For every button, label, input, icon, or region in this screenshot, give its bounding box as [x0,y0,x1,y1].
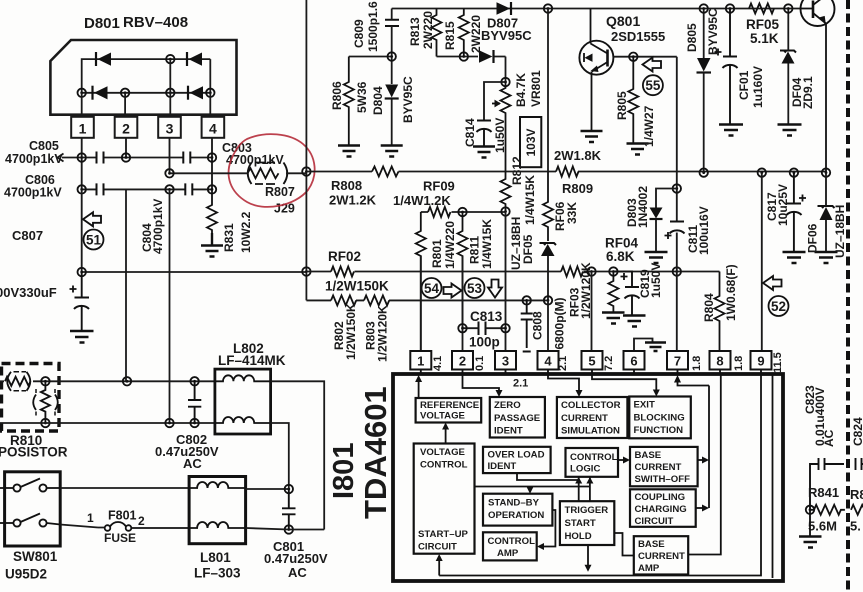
zener DF06 [818,206,835,220]
svg-text:4700p1kV: 4700p1kV [226,153,284,167]
junction DF04 top [784,4,792,12]
IC pin box 3 [495,351,516,370]
svg-text:RBV–408: RBV–408 [123,14,188,31]
ground DF06 [815,252,838,263]
junction R815 bottom [460,52,468,60]
junction C801 bottom [285,525,293,533]
callout arrow 52 [763,276,782,290]
resistor R803 [364,295,389,305]
callout arrow 54 (right) [444,284,462,298]
junction bottom rail pin4 [206,89,214,97]
wire D803 branch [656,189,677,252]
capacitor C803 [183,152,190,164]
wire pin3 column lower [169,189,171,423]
junction row1 pin1 [78,153,86,161]
resistor R807 (fusible, in parentheses) [248,163,288,185]
junction top bus x548 [544,4,552,12]
switch SW801 box [5,472,61,546]
diode D801-b (top rail right) [187,52,202,66]
wire pin8 internal descent [688,374,721,555]
svg-text:BYV95C: BYV95C [401,76,415,123]
capacitor C811 (polarized, in pin7 column) [665,222,685,240]
wire DF06 column [825,173,827,252]
diode D807 (top bus) [497,2,512,15]
svg-text:COUPLING: COUPLING [635,492,686,503]
resistor R801 (vertical) [416,212,426,351]
wire coupling charging output (arrow right) [696,505,709,512]
svg-text:ZERO: ZERO [494,400,521,411]
posistor R810 dashed box [2,364,60,432]
ground CF01 [719,125,743,136]
svg-text:BASE: BASE [638,539,665,550]
resistor RF04 (vertical) [608,272,618,313]
svg-text:DF06: DF06 [806,223,820,253]
svg-text:1/4W15K: 1/4W15K [480,219,494,269]
svg-text:REFERENCE: REFERENCE [420,400,480,411]
ground R831 [201,233,223,257]
svg-text:R809: R809 [562,181,593,196]
resistor R806 (vertical) [344,57,354,146]
block COLLECTOR CURRENT SIMULATION [557,397,628,438]
junction R812 bottom [501,207,509,215]
svg-text:54: 54 [424,281,440,296]
wire bridge bottom rail [82,92,211,94]
capacitor C817 (polarized) [787,173,807,252]
junction bottom rail pin2 [121,89,129,97]
svg-text:R8: R8 [850,487,863,502]
svg-text:CURRENT: CURRENT [638,551,685,562]
svg-text:5.6M: 5.6M [808,519,837,534]
svg-text:2W1.8K: 2W1.8K [554,148,602,163]
svg-text:R831: R831 [222,223,236,252]
capacitor C824 (partial) [856,458,863,470]
diode D801-a (top rail left) [96,52,111,66]
wire trigger to base current amp link [614,533,634,556]
wire pin1 internal drop [82,93,211,117]
wire pin2 column [462,256,464,352]
ground C819 [623,316,646,327]
svg-text:1500p1.6: 1500p1.6 [366,1,380,52]
wire pin4 to collector current sim (arrow down) [548,374,583,397]
wire pin9 column [761,173,763,351]
red annotation ellipse [229,134,315,207]
svg-text:RF09: RF09 [423,179,455,194]
svg-text:2: 2 [138,514,145,528]
svg-text:1.8: 1.8 [691,356,703,371]
wire pin5 column [591,272,593,352]
svg-text:R807: R807 [265,185,295,199]
wire C813 links [463,327,506,329]
svg-text:53: 53 [467,281,483,296]
svg-text:1/4W27: 1/4W27 [642,105,656,147]
capacitor CF01 [715,9,738,125]
svg-text:UZ–18BH: UZ–18BH [833,205,847,258]
junction VR801 top node [501,78,509,86]
inductor L801 bottom winding [189,522,245,528]
svg-text:LF–303: LF–303 [194,566,241,581]
capacitor C823 [810,458,844,510]
svg-text:7: 7 [674,354,681,369]
wire over load ident web line1 [517,473,582,483]
svg-text:AMP: AMP [638,563,660,574]
svg-text:2.1: 2.1 [513,378,528,390]
svg-text:Q801: Q801 [606,13,640,29]
pin box 4 [202,117,225,138]
svg-text:1u50V: 1u50V [649,263,663,298]
resistor R809 (2W1.8K on bus) [556,167,579,177]
fusible resistor R810b (vertical) [33,381,58,423]
callout arrow 51 [83,212,101,226]
wire pin7 column [676,57,678,351]
svg-text:1u50V: 1u50V [493,118,507,153]
junction C813 left [458,324,466,332]
dashed page split line [846,0,850,592]
svg-text:POSISTOR: POSISTOR [0,445,68,460]
junction D803 tap [673,184,681,192]
wire base current switch-off output (arrow right) [698,457,709,464]
junction D804 node [388,52,396,60]
wire DF05 column [547,256,549,300]
svg-text:TRIGGER: TRIGGER [565,505,609,516]
svg-text:STAND–BY: STAND–BY [488,497,540,508]
resistor RF02 [331,267,354,277]
fuse F801 [105,522,189,531]
svg-text:I801: I801 [328,443,360,499]
wire row A right of L802 [271,381,325,529]
zener DF05 [540,243,557,256]
diode D805 [697,58,712,73]
svg-text:TDA4601: TDA4601 [358,386,393,519]
junction row300 C808 [523,296,531,304]
callout circle 51 [84,230,104,250]
svg-text:2: 2 [122,121,130,137]
svg-text:0.1: 0.1 [474,356,486,371]
junction top rail pin3 [166,55,174,63]
svg-text:BASE: BASE [635,450,662,461]
svg-text:D801: D801 [84,15,120,32]
svg-text:SIMULATION: SIMULATION [561,426,620,437]
wire row A left [0,380,215,382]
ground D804 [381,146,403,157]
svg-text:IDENT: IDENT [494,426,523,437]
svg-text:1/4W1.2K: 1/4W1.2K [393,193,451,208]
svg-text:5.: 5. [850,519,861,534]
ground C817 [783,252,806,263]
block REFERENCE VOLTAGE [416,398,482,423]
svg-text:IDENT: IDENT [488,461,517,472]
svg-text:00V330uF: 00V330uF [0,285,57,300]
svg-text:11.5: 11.5 [772,352,784,373]
svg-text:R841: R841 [808,485,839,500]
junction CF01 top [726,4,734,12]
svg-text:RF02: RF02 [328,249,361,264]
wire row2 (C806/C804 row) [82,188,212,190]
capacitor C805 [97,152,104,164]
svg-text:33K: 33K [565,202,579,224]
wire control logic to trigger verticals [579,477,590,501]
switch SW801 pole 2 [0,514,60,527]
resistor R802 [331,295,356,305]
block ZERO PASSAGE IDENT [490,397,545,438]
wire pin1 column lower [81,189,83,272]
svg-text:D805: D805 [685,23,699,52]
svg-text:10u25V: 10u25V [776,184,790,226]
block CONTROL LOGIC [566,448,619,477]
svg-text:ZD9.1: ZD9.1 [801,76,815,109]
block CONTROL AMP [483,532,537,560]
inductor L802 bottom winding [215,417,270,423]
svg-text:100u16V: 100u16V [697,206,711,255]
wire pin6 ground stub [634,339,653,352]
inductor L801 top winding [189,482,245,488]
svg-text:C808: C808 [531,311,545,340]
callout circle 54 [422,278,442,298]
wire stand-by entry (arrow down) [527,487,534,494]
block VOLTAGE CONTROL / START-UP CIRCUIT [414,444,475,554]
capacitor C813 [479,322,486,336]
svg-text:1: 1 [417,354,424,369]
junction C807 node [78,268,86,276]
junction bus DF06 [822,168,830,176]
svg-text:BYV95C: BYV95C [706,8,720,55]
resistor R831 (vertical, pin4 column) [207,189,217,233]
wire pin7 feedback (arrow up) [674,375,709,386]
junction row271 RF04 [609,267,617,275]
svg-text:PASSAGE: PASSAGE [494,413,541,424]
wire Q801 base line [613,56,676,58]
svg-text:FUSE: FUSE [104,531,136,545]
svg-text:5: 5 [588,354,595,369]
svg-text:VOLTAGE: VOLTAGE [420,411,466,422]
wire R807 line (pin3 to bus start) [170,172,307,174]
junction row2 pin4 [208,185,216,193]
diode D807b (on y56 line) [479,50,494,63]
resistor R805 (vertical) [628,57,638,143]
junction row A pin2 column [123,377,131,385]
svg-text:BYV95C: BYV95C [481,28,532,43]
IC pin box 7 [667,351,688,370]
svg-text:SW801: SW801 [13,549,58,564]
diode D803 [650,208,663,220]
svg-text:F801: F801 [108,509,137,523]
switch SW801 pole 1 [0,479,60,492]
svg-text:6800p(M): 6800p(M) [553,297,567,349]
junction x306 at bus [302,167,310,175]
svg-text:C813: C813 [470,309,503,324]
transistor Q801 [579,9,613,131]
svg-text:1.8: 1.8 [733,356,745,371]
wire R806 node line y56.5 [349,56,392,58]
resistor R813 (vertical) [432,9,442,57]
capacitor C809 [385,20,399,26]
resistor R804 (vertical) [715,272,725,352]
capacitor C808 [521,300,533,351]
svg-text:1/4W220: 1/4W220 [443,221,457,269]
svg-text:VR801: VR801 [529,70,543,107]
svg-text:4700p1kV: 4700p1kV [4,186,62,200]
svg-text:100p: 100p [469,335,500,350]
junction row2 pin1 [78,185,86,193]
block EXIT BLOCKING FUNCTION [629,397,691,439]
ground C807 [70,331,94,343]
junction C801 top [285,485,293,493]
wire row 300 [306,299,548,301]
resistor R841 [810,505,845,515]
capacitor C801 [282,489,296,530]
svg-text:4700p1kV: 4700p1kV [5,152,63,166]
svg-text:COLLECTOR: COLLECTOR [561,400,621,411]
svg-text:5W36: 5W36 [355,81,369,113]
wire top bus y8.5 [392,8,801,10]
resistor R808 (2W1.2K on bus) [372,167,398,177]
svg-text:CONTROL: CONTROL [570,452,618,463]
capacitor C806 [97,183,104,195]
svg-text:51: 51 [86,233,102,248]
capacitor C804 [185,183,192,195]
svg-text:BLOCKING: BLOCKING [634,412,685,423]
junction R811 top [458,208,466,216]
wire DF04 column [787,9,789,125]
svg-text:1: 1 [87,511,94,525]
line filter L801 box [189,477,246,544]
block OVER LOAD IDENT [483,447,551,473]
svg-text:R808: R808 [331,178,362,193]
wire inner vertical x709 [708,386,710,509]
wire pin2 column lower [125,189,127,381]
svg-text:CURRENT: CURRENT [561,413,608,424]
zener DF04 [780,51,796,64]
wire D805 column [703,9,705,173]
block COUPLING CHARGING CIRCUIT [630,489,696,527]
svg-text:4: 4 [544,354,552,369]
svg-text:9: 9 [757,354,764,369]
svg-text:1/4W15K: 1/4W15K [523,175,537,225]
svg-text:1/2W120K: 1/2W120K [376,305,390,362]
svg-text:AC: AC [288,565,307,580]
svg-text:2SD1555: 2SD1555 [611,29,665,44]
junction row B C802 [190,419,198,427]
diode D801-c (bottom rail left) [93,86,108,100]
block TRIGGER START HOLD [560,501,614,545]
junction D805 top [700,4,708,12]
junction row271 pin7 [673,267,681,275]
svg-text:10W2.2: 10W2.2 [239,211,253,253]
junction bottom rail pin1 [78,89,86,97]
resistor RF06 (vertical) [543,172,553,242]
diode D801-d (bottom rail right) [188,86,203,100]
resistor R815 (vertical) [459,9,469,57]
svg-text:1: 1 [79,121,87,137]
line filter L802 box [215,369,271,434]
resistor RF09 [428,207,451,217]
wire SW to fuse row [60,525,104,528]
ground C814 [473,147,495,158]
open end arrow row1 left [58,154,64,162]
svg-text:52: 52 [771,299,786,314]
IC pin box 2 [452,351,473,370]
resistor RF03 [561,267,583,277]
wire pin9 internal descent and bottom rail [439,374,761,576]
inductor L802 top winding [215,375,270,381]
junction R805 tap [629,53,637,61]
svg-text:1N4002: 1N4002 [636,186,650,228]
junction R807 line at pin3 [165,169,173,177]
ground D803 [645,252,668,263]
svg-text:R813: R813 [408,17,422,46]
junction row1 pin2 [122,153,130,161]
junction row300 pin4 [544,296,552,304]
junction row2 pin3 [165,185,173,193]
svg-text:D804: D804 [371,86,385,115]
svg-text:3: 3 [502,354,509,369]
pin box 2 [115,117,138,138]
svg-text:0.47u250V: 0.47u250V [264,551,328,566]
svg-text:1/2W150K: 1/2W150K [344,303,358,360]
ground RF04 [602,313,625,324]
svg-text:C824: C824 [851,417,863,446]
junction bus pin9 column [758,168,766,176]
wire L801 bottom right [246,528,325,530]
svg-text:R805: R805 [615,91,629,120]
wire C809/D804 column [391,9,393,146]
svg-text:C809: C809 [352,19,366,48]
svg-text:B4.7K: B4.7K [514,73,528,107]
capacitor C802 [188,381,201,423]
svg-text:55: 55 [645,78,661,93]
resistor RF05 (on bus) [749,4,774,14]
transistor TF01 (top right) [800,0,835,173]
wire R813/R815 bottom node y56.5 [437,57,506,83]
junction x306 at row271 [302,267,310,275]
wire voltage control to reference voltage (arrow up) [442,423,449,444]
fusible resistor R810a (horizontal) [5,372,31,391]
resistor R8xx (partial) [851,505,863,515]
junction R841 node [806,506,814,514]
wire row C807 (y272) [82,271,307,273]
junction R810 bottom [41,419,49,427]
svg-text:VOLTAGE: VOLTAGE [420,447,466,458]
svg-text:CIRCUIT: CIRCUIT [635,516,674,527]
svg-text:CIRCUIT: CIRCUIT [418,542,457,553]
wire row B right of L802 [271,423,289,489]
svg-text:6.8K: 6.8K [606,249,635,264]
voltage box 103V [520,117,541,167]
pin box 1 [71,117,94,138]
svg-text:EXIT: EXIT [634,400,655,411]
svg-text:R812: R812 [510,156,524,185]
main bus y171 [306,171,826,173]
junction bus C817 [790,168,798,176]
junction C813 right [501,324,509,332]
wire control logic to base current switch-off (arrow right) [618,457,630,464]
ground R806 [338,146,360,157]
svg-text:CONTROL: CONTROL [488,536,536,547]
ground R841 [799,537,822,548]
svg-text:1/2W150K: 1/2W150K [325,279,389,294]
svg-text:4700p1kV: 4700p1kV [151,199,165,254]
resistor R812 (vertical) [501,172,511,212]
junction bottom rail pin3 [166,89,174,97]
callout arrow 53 (down) [488,280,502,298]
svg-text:1u160V: 1u160V [751,66,765,108]
svg-text:2: 2 [459,354,466,369]
svg-text:FUNCTION: FUNCTION [634,425,684,436]
svg-text:R801: R801 [430,239,444,268]
wire pin stubs to IC edge [421,370,761,375]
block BASE CURRENT SWITH-OFF [630,447,698,486]
pin box 3 [158,117,181,138]
svg-text:2W1.2K: 2W1.2K [329,193,377,208]
